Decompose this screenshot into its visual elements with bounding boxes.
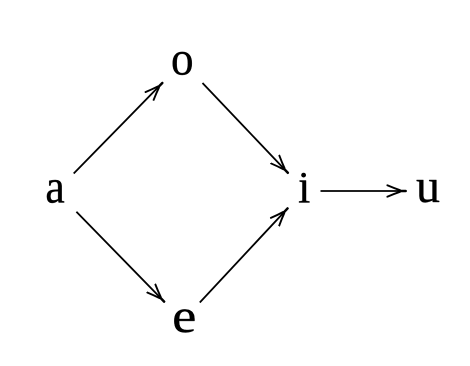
node u: [417, 180, 440, 203]
dot of i: [301, 173, 306, 178]
node a: [47, 180, 64, 203]
node i: [299, 180, 310, 202]
wire o->i: [203, 83, 289, 174]
wire e->i: [200, 208, 288, 303]
wire a->o: [74, 82, 163, 173]
wire a->e: [76, 212, 164, 303]
node e: [174, 309, 194, 332]
node o: [173, 52, 192, 75]
wire i->u: [321, 190, 407, 192]
